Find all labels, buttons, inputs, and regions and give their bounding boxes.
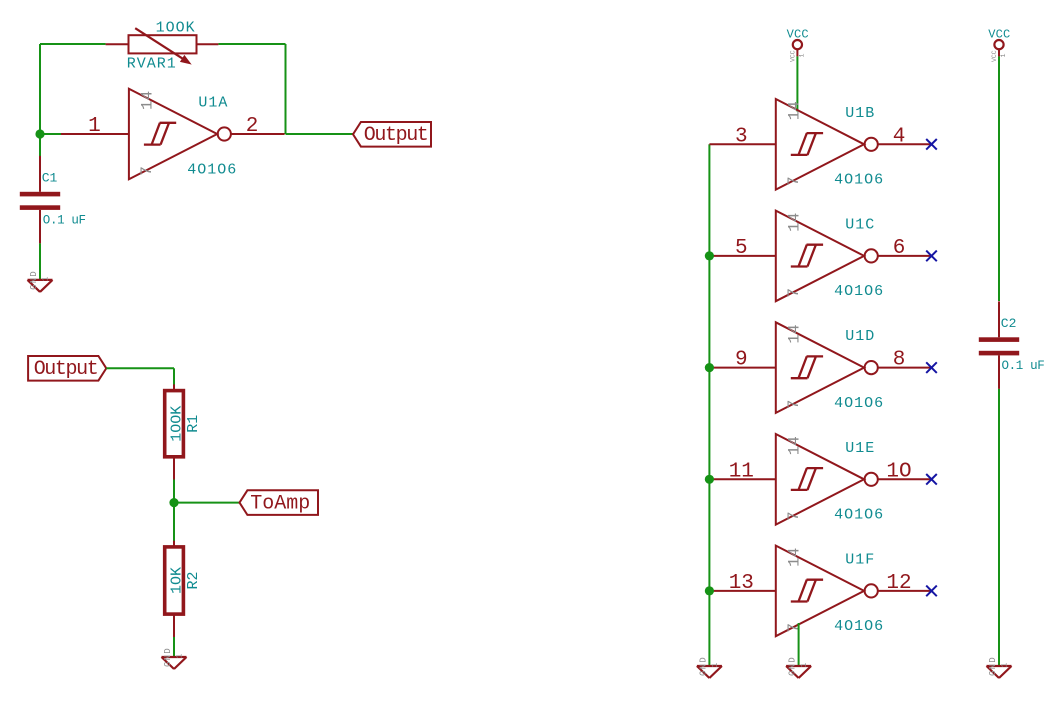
svg-text:13: 13: [729, 572, 754, 595]
svg-text:VCC: VCC: [790, 50, 797, 62]
svg-text:Output: Output: [364, 124, 428, 147]
svg-text:4O1O6: 4O1O6: [834, 618, 884, 635]
svg-text:GND: GND: [788, 656, 798, 676]
wire: [174, 502, 240, 504]
no-connect pin 10: [926, 474, 937, 485]
wire: [796, 56, 798, 111]
ground: [28, 270, 53, 292]
label Output: [28, 356, 106, 381]
svg-text:1: 1: [1000, 54, 1007, 58]
power VCC: [787, 27, 809, 62]
svg-text:R1: R1: [185, 415, 202, 433]
wire: [39, 44, 41, 134]
wire: [998, 389, 1000, 666]
svg-text:1: 1: [176, 654, 185, 659]
svg-text:1OOK: 1OOK: [156, 20, 196, 37]
wire: [173, 480, 175, 503]
resistor R2: [165, 541, 202, 637]
svg-text:7: 7: [785, 511, 803, 521]
junction: [169, 498, 178, 507]
svg-text:12: 12: [886, 572, 911, 595]
svg-text:14: 14: [785, 324, 803, 343]
label Output: [353, 122, 431, 147]
svg-text:7: 7: [785, 176, 803, 186]
svg-text:7: 7: [785, 400, 803, 410]
wire: [173, 503, 175, 542]
svg-text:4O1O6: 4O1O6: [834, 395, 884, 412]
svg-text:GND: GND: [163, 647, 173, 667]
wire: [39, 243, 41, 280]
svg-text:1OOK: 1OOK: [168, 406, 185, 442]
svg-text:9: 9: [735, 349, 748, 372]
svg-text:U1D: U1D: [845, 328, 875, 345]
svg-text:1: 1: [1001, 663, 1010, 668]
junction: [705, 586, 714, 595]
svg-text:1: 1: [798, 54, 805, 58]
wire: [708, 144, 710, 666]
wire: [106, 367, 174, 369]
svg-text:14: 14: [785, 213, 803, 232]
ground: [786, 656, 811, 678]
svg-text:R2: R2: [185, 571, 202, 589]
svg-text:1: 1: [800, 663, 809, 668]
svg-text:7: 7: [138, 166, 156, 176]
svg-text:RVAR1: RVAR1: [127, 55, 177, 72]
inverter U1F: [709, 546, 931, 637]
svg-text:ToAmp: ToAmp: [250, 493, 310, 516]
junction: [35, 129, 44, 138]
wire: [286, 133, 354, 135]
wire: [40, 133, 62, 135]
svg-text:O.1 uF: O.1 uF: [1002, 359, 1045, 373]
svg-text:GND: GND: [988, 656, 998, 676]
svg-text:U1B: U1B: [845, 105, 875, 122]
wire: [285, 44, 287, 134]
capacitor C1: [20, 156, 86, 244]
svg-text:GND: GND: [29, 270, 39, 290]
svg-text:8: 8: [893, 349, 906, 372]
svg-text:3: 3: [735, 125, 748, 148]
wire: [40, 43, 106, 45]
potentiometer RVAR1: [106, 20, 219, 73]
svg-text:1: 1: [42, 276, 51, 281]
junction: [705, 475, 714, 484]
wire: [998, 56, 1000, 301]
wire: [218, 43, 285, 45]
svg-text:U1A: U1A: [198, 95, 228, 112]
svg-text:14: 14: [785, 436, 803, 455]
no-connect pin 12: [926, 586, 937, 597]
svg-text:C2: C2: [1001, 316, 1017, 331]
svg-text:6: 6: [893, 237, 906, 260]
svg-text:1O: 1O: [886, 460, 911, 483]
svg-text:4: 4: [893, 125, 906, 148]
inverter U1D: [709, 322, 931, 413]
no-connect pin 6: [926, 251, 937, 262]
resistor R1: [165, 384, 202, 479]
svg-text:1: 1: [88, 115, 101, 138]
svg-text:14: 14: [785, 548, 803, 567]
svg-text:7: 7: [785, 623, 803, 633]
svg-text:11: 11: [729, 460, 754, 483]
svg-text:1OK: 1OK: [168, 567, 185, 594]
junction: [705, 363, 714, 372]
power VCC: [988, 27, 1010, 62]
svg-text:GND: GND: [699, 656, 709, 676]
svg-text:14: 14: [139, 91, 157, 110]
svg-text:1: 1: [711, 663, 720, 668]
svg-text:4O1O6: 4O1O6: [834, 283, 884, 300]
inverter U1E: [709, 434, 931, 525]
ground: [987, 656, 1012, 678]
svg-text:4O1O6: 4O1O6: [834, 507, 884, 524]
svg-text:C1: C1: [42, 170, 58, 185]
svg-text:5: 5: [735, 237, 748, 260]
svg-text:U1E: U1E: [845, 440, 875, 457]
wire: [39, 134, 41, 156]
no-connect pin 4: [926, 139, 937, 150]
inverter U1A: [61, 89, 285, 180]
svg-text:VCC: VCC: [991, 50, 998, 62]
label ToAmp: [240, 490, 319, 515]
wire: [173, 637, 175, 657]
svg-text:U1C: U1C: [845, 216, 875, 233]
ground: [697, 656, 722, 678]
wire: [173, 368, 175, 384]
svg-text:4O1O6: 4O1O6: [834, 172, 884, 189]
no-connect pin 8: [926, 362, 937, 373]
ground: [162, 647, 187, 669]
svg-text:U1F: U1F: [845, 551, 875, 568]
inverter U1C: [709, 211, 931, 302]
wire: [798, 623, 800, 666]
svg-text:Output: Output: [34, 358, 98, 381]
junction: [705, 251, 714, 260]
svg-text:14: 14: [785, 101, 803, 120]
svg-text:4O1O6: 4O1O6: [187, 161, 237, 178]
svg-text:O.1 uF: O.1 uF: [43, 214, 86, 228]
inverter U1B: [709, 99, 931, 190]
capacitor C2: [979, 301, 1045, 389]
svg-text:7: 7: [785, 288, 803, 298]
svg-text:2: 2: [246, 115, 259, 138]
